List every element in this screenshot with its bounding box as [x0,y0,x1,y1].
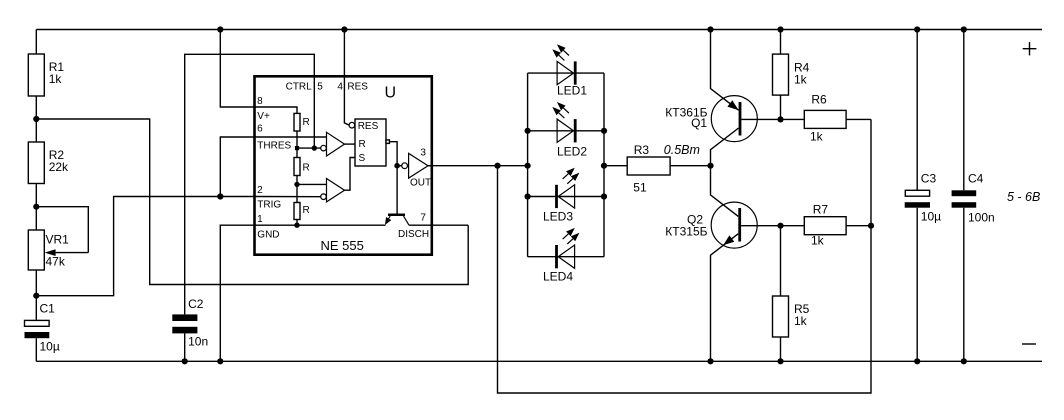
svg-text:3: 3 [420,148,426,159]
node CTRL at node1 [312,145,317,150]
wire GND pin1 to bottom rail [220,225,254,361]
capacitor C2 [172,297,208,349]
LED LED2 [528,102,604,159]
wire right LED bus [603,73,605,257]
wire left column top: rail to R1 [35,30,37,55]
svg-text:C2: C2 [188,297,204,311]
node VR1/C1/TRIG junction [33,293,39,299]
wire GND internal line [255,224,386,226]
svg-text:1k: 1k [811,234,825,248]
svg-text:2: 2 [257,185,263,196]
LED LED3 (reversed) [528,168,604,224]
wire CTRL pin5 to C2 [185,54,315,314]
node Q1 emitter on top rail [707,26,713,32]
wire VR1 bottom to C1 [35,270,37,320]
svg-text:TRIG: TRIG [257,200,281,211]
svg-text:R: R [303,117,310,128]
svg-text:51: 51 [633,180,647,194]
svg-text:1k: 1k [810,129,824,143]
wire THRES pin6 to TRIG [220,137,254,197]
svg-text:R6: R6 [811,92,827,106]
capacitor C1 [25,301,60,353]
resistor R internal c [294,203,310,220]
wire TRIG net: C1 top to pin2 [36,197,254,296]
node C4 bottom rail [961,358,967,364]
wire CTRL internal drop [313,76,315,148]
node Q2 base / R5 [777,223,783,229]
resistor R internal b [294,158,310,176]
svg-text:DISCH: DISCH [398,229,429,240]
resistor R1 [28,54,64,96]
node FF output junction [394,163,400,169]
svg-text:C1: C1 [40,301,56,315]
node R2/VR1 junction [33,204,39,210]
wire buffer out to pin 3 [428,165,432,167]
svg-text:R7: R7 [813,203,829,217]
- label (negative rail) [1022,343,1036,345]
svg-text:Q1: Q1 [691,116,707,130]
svg-text:OUT: OUT [410,178,431,189]
svg-text:1k: 1k [794,72,808,86]
wire VR1 wiper loop to R2/VR1 junction [36,207,88,253]
svg-text:V+: V+ [257,111,270,122]
potentiometer VR1 [28,230,88,270]
node divider GND [294,223,299,228]
node C4 top rail [961,26,967,32]
svg-text:5 - 6В: 5 - 6В [1007,190,1040,204]
+ label (positive rail) [1023,42,1037,55]
wire pin7 internal [409,224,432,226]
svg-text:КТ315Б: КТ315Б [665,225,707,239]
LED LED1 [528,44,604,97]
node right bus LED2 [601,128,607,134]
svg-text:NE 555: NE 555 [321,238,364,253]
node OUT at left LED bus [525,163,531,169]
svg-text:R: R [303,162,310,173]
node right bus R3 tap [601,163,607,169]
wire divider a to node1 [296,131,298,158]
svg-text:47k: 47k [46,255,66,269]
svg-text:10µ: 10µ [921,210,941,224]
svg-text:10µ: 10µ [40,340,60,354]
svg-text:6: 6 [257,123,263,134]
resistor R6 [804,92,871,143]
node C2 on bottom rail [182,358,188,364]
resistor R4 [773,30,810,120]
svg-text:C4: C4 [968,172,984,186]
svg-text:CTRL: CTRL [286,81,313,92]
svg-text:R: R [359,139,366,150]
wire pin7 DISCH to loop [432,224,468,226]
wire TRIG pin2 internal to comp2 bubble [255,196,321,198]
node Q2 emitter on bottom rail [707,358,713,364]
wire left LED bus [527,73,529,257]
node R7 right on loop [868,223,874,229]
svg-text:8: 8 [257,96,263,107]
transistor Q3 discharge [385,214,409,226]
wire C1 bottom to rail [35,338,37,361]
wire top supply rail [36,29,1042,31]
node OUT branch [494,163,500,169]
capacitor C4 [952,30,995,362]
wire R1/R2 junction to DISCH loop [36,119,468,285]
svg-text:LED1: LED1 [557,84,587,98]
node V+ tap on top rail [217,26,223,32]
resistor R3 [604,143,711,194]
svg-text:1: 1 [257,214,263,225]
resistor R internal a [294,113,310,131]
resistor R2 [28,142,69,184]
svg-text:1k: 1k [794,314,808,328]
svg-text:U: U [385,85,397,102]
node TRIG/THRES junction [217,193,223,199]
wire R2 bottom to VR1 top [35,184,37,231]
svg-text:THRES: THRES [257,140,291,151]
svg-text:GND: GND [257,229,279,240]
wire node1 to comparator bubble [297,147,321,149]
capacitor C3 [905,30,941,362]
flip-flop U1a RS latch [349,119,389,166]
node left bus LED2 [525,128,531,134]
node C3 top rail [914,26,920,32]
wire V+ pin8 from top rail [220,30,254,108]
node divider node2 [294,182,299,187]
node collector junction [707,163,713,169]
svg-text:4: 4 [337,81,343,92]
node Q1 base / R4 [777,116,783,122]
op-amp output buffer [402,153,428,178]
node right bus LED3 [601,193,607,199]
svg-text:1k: 1k [49,72,63,86]
wire divider c to GND line [296,220,298,226]
wire pin8 internal to divider [255,107,298,113]
op-amp comparator 1 [321,132,345,156]
svg-text:5: 5 [317,81,323,92]
svg-text:R: R [303,205,310,216]
svg-text:S: S [359,153,366,164]
svg-text:RES: RES [358,121,379,132]
transistor Q2 KT315B (NPN) [665,166,804,362]
node C3 bottom rail [914,358,920,364]
transistor Q1 KT361B (PNP) [665,30,804,166]
svg-text:7: 7 [420,213,426,224]
svg-text:C3: C3 [921,172,937,186]
node GND on bottom rail [217,358,223,364]
node RES tap on top rail [341,26,347,32]
wire FF output to buffer and discharge [389,142,401,214]
wire divider b to node2 [296,176,298,203]
svg-text:0.5Вт: 0.5Вт [664,143,700,157]
node R5 on bottom rail [777,358,783,364]
node left bus LED3 [525,193,531,199]
svg-text:LED3: LED3 [543,210,573,224]
resistor R5 [773,226,810,362]
svg-text:R3: R3 [634,143,650,157]
wire C2 bottom to rail [184,333,186,361]
svg-text:LED4: LED4 [543,270,573,284]
svg-text:22k: 22k [49,160,69,174]
wire comp1 out to FF R input [345,143,356,145]
wire RES pin4 from top rail [344,30,349,126]
wire OUT pin3 to LED bus [432,165,528,167]
LED LED4 (reversed) [528,228,604,284]
node R4 on top rail [777,26,783,32]
wire R1 bottom to R2 top [35,96,37,142]
wire OUT bottom loop to R6/R7 [498,119,872,393]
node divider node1 [295,146,299,150]
wire THRES pin6 internal to comp1 [255,136,327,138]
resistor R7 [804,203,871,248]
wire bottom supply rail [36,360,1042,362]
op-amp comparator 2 [321,179,345,202]
svg-text:100n: 100n [968,211,995,225]
svg-text:VR1: VR1 [46,233,70,247]
wire comp2 out to FF S input [345,158,356,191]
wire node2 to comp2 top input [297,183,327,185]
svg-text:LED2: LED2 [557,145,587,159]
svg-text:10n: 10n [188,335,208,349]
svg-text:RES: RES [347,81,368,92]
node R1/R2 junction [33,116,39,122]
op-amp U1 IC box NE 555 [255,76,432,254]
